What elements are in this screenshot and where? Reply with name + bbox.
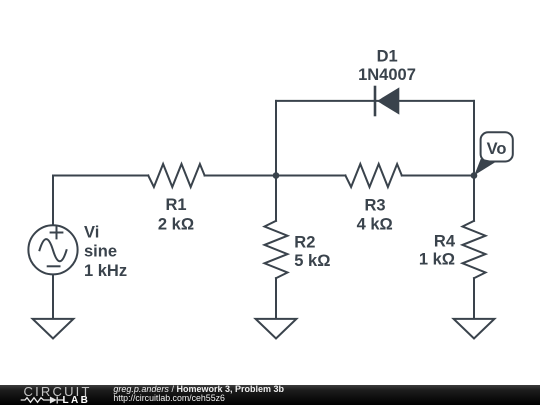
svg-text:R4: R4 (434, 232, 456, 250)
ground R4 (454, 319, 495, 339)
sine wave (40, 239, 67, 261)
resistor R4 (463, 221, 486, 278)
resistor R2 (265, 221, 288, 278)
svg-text:2 kΩ: 2 kΩ (158, 215, 194, 233)
plus sign (51, 227, 63, 239)
Vo flag tail (474, 159, 496, 176)
svg-text:Vo: Vo (487, 140, 507, 158)
wire source top to R1 (53, 176, 148, 225)
svg-text:R2: R2 (294, 234, 315, 252)
logo zigzag + diode (21, 397, 64, 404)
wire node A up (275, 101, 277, 176)
svg-text:R1: R1 (165, 196, 186, 214)
wire node B up (473, 101, 475, 176)
wire top horizontal (276, 100, 474, 102)
svg-text:R3: R3 (364, 196, 385, 214)
svg-text:LAB: LAB (63, 395, 91, 405)
wire source bottom to ground (52, 275, 54, 319)
wire R4 to ground (473, 278, 475, 319)
wire node B down to R4 (473, 176, 475, 221)
svg-text:1 kHz: 1 kHz (84, 262, 127, 280)
svg-text:D1: D1 (377, 47, 398, 65)
node A dot (273, 172, 280, 179)
wire R1 to R3 through node A (205, 175, 346, 177)
diode D1 cathode bar (374, 87, 377, 115)
wire R2 to ground (275, 278, 277, 319)
svg-text:Vi: Vi (84, 223, 99, 241)
ground source (33, 319, 74, 339)
minus sign (48, 265, 60, 267)
svg-text:http://circuitlab.com/ceh55z6: http://circuitlab.com/ceh55z6 (113, 393, 225, 403)
svg-text:4 kΩ: 4 kΩ (357, 215, 393, 233)
resistor R1 (148, 164, 204, 187)
svg-text:1N4007: 1N4007 (358, 66, 416, 84)
resistor R3 (345, 164, 401, 187)
svg-text:5 kΩ: 5 kΩ (294, 252, 330, 270)
svg-text:sine: sine (84, 243, 117, 261)
svg-text:1 kΩ: 1 kΩ (419, 251, 455, 269)
node B dot (471, 172, 478, 179)
wire R3 to node B (402, 175, 474, 177)
Vo flag box (481, 132, 513, 161)
voltage source V1 circle (28, 225, 77, 274)
ground R2 (256, 319, 297, 339)
diode D1 triangle (377, 87, 399, 114)
wire node A down to R2 (275, 176, 277, 221)
